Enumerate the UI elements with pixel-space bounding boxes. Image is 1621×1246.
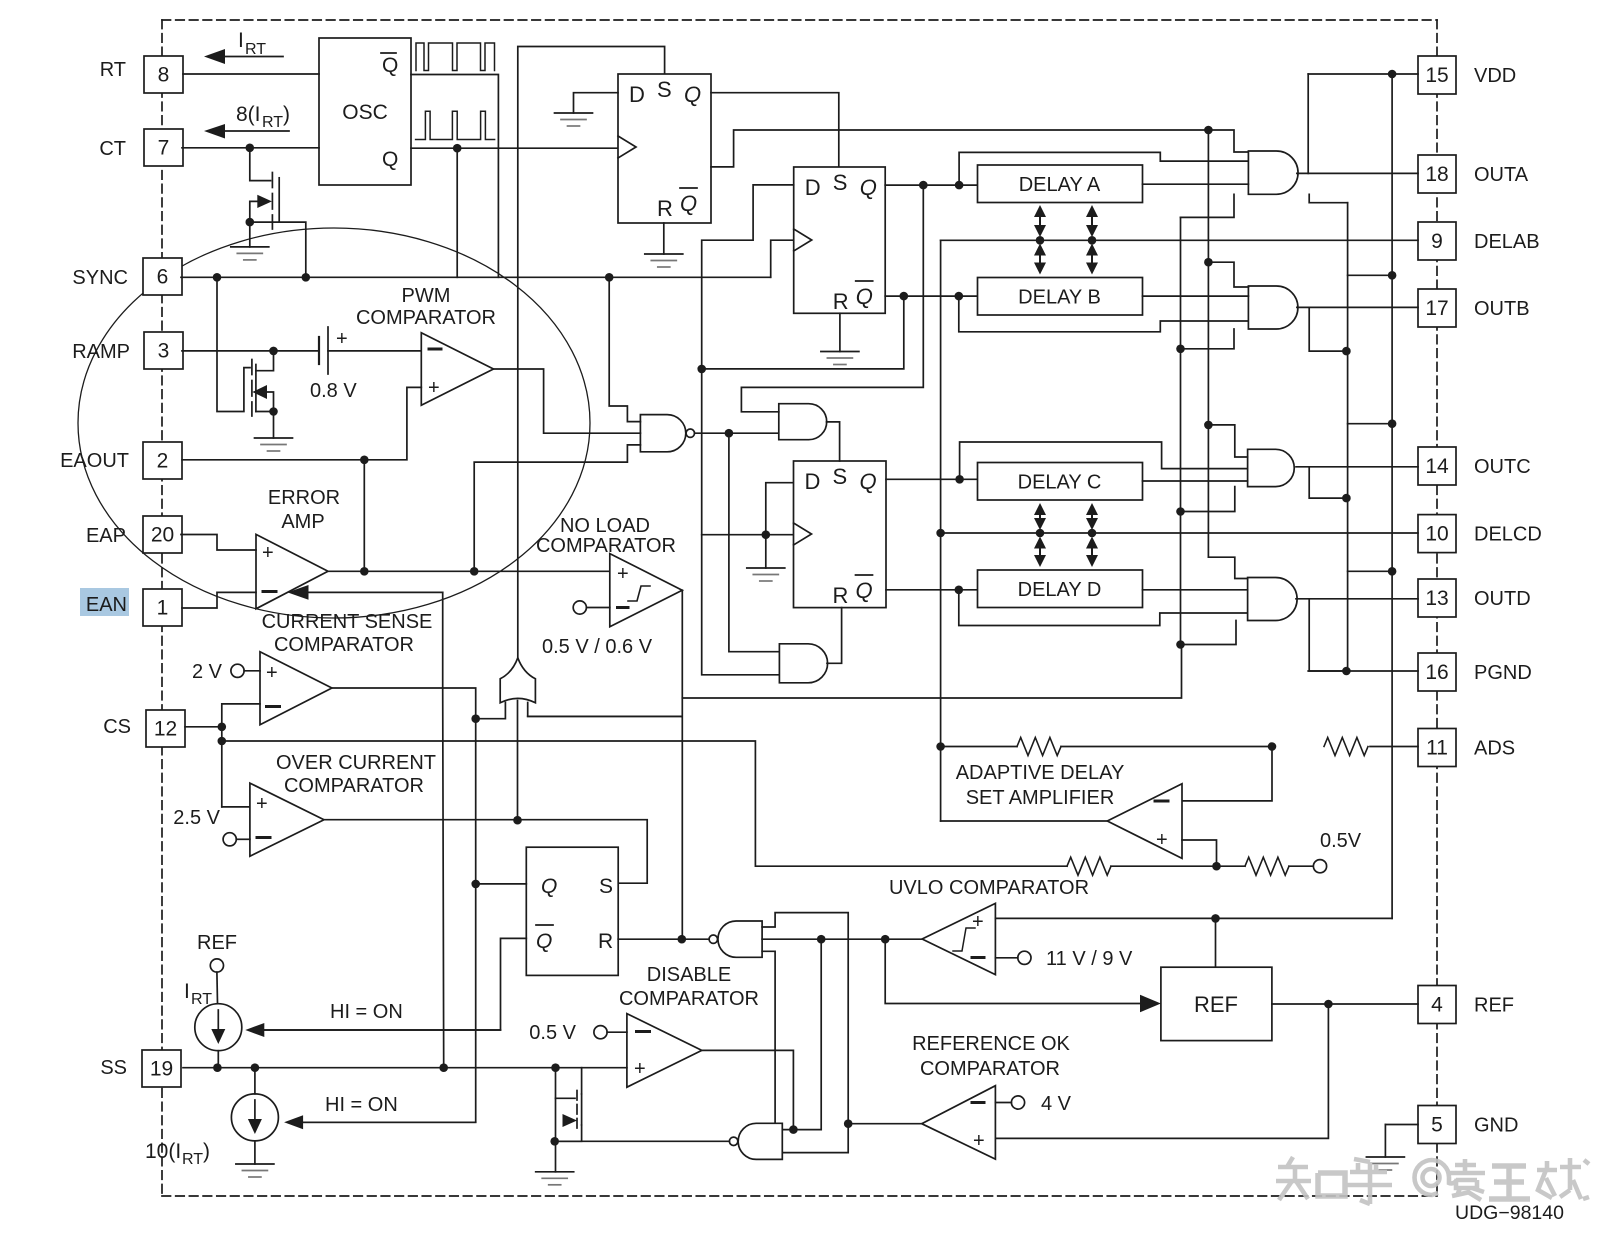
wire OUTD row to pin 13 — [1296, 598, 1418, 600]
battery 0.8V — [310, 327, 357, 402]
svg-text:REF: REF — [1194, 992, 1238, 1017]
svg-text:R: R — [657, 196, 673, 221]
svg-text:+: + — [1156, 829, 1168, 851]
svg-text:8: 8 — [158, 64, 170, 87]
ground FF2 R — [821, 351, 859, 353]
wire OUTC drop to bus1347 — [1309, 467, 1346, 498]
wire FF3 Qbar to DELAY D — [886, 589, 978, 591]
junction Qbar1 bus1208 — [1204, 126, 1213, 135]
svg-text:CS: CS — [103, 716, 131, 738]
svg-text:OUTD: OUTD — [1474, 588, 1531, 610]
svg-text:DELAY C: DELAY C — [1018, 472, 1102, 494]
junction Qbar2 riser — [900, 292, 909, 301]
and gate C — [1248, 449, 1295, 486]
ground FF1 D — [555, 112, 593, 114]
svg-text:REF: REF — [197, 932, 237, 954]
junction R row riser to NAND2 — [817, 935, 826, 944]
flip-flop FF1 — [618, 74, 711, 223]
wire UVLO out down to REF arrow — [885, 939, 1142, 1003]
svg-text:ADS: ADS — [1474, 738, 1515, 760]
bus 1181 vertical — [1180, 217, 1182, 644]
reference terminal 11V/9V — [995, 948, 1133, 970]
svg-text:14: 14 — [1425, 455, 1449, 478]
wire EAOUT pin to PWM + input — [182, 387, 421, 459]
wire FF2 D loop from bus701 — [702, 185, 794, 675]
svg-text:Q: Q — [680, 191, 697, 216]
reference terminal NO LOAD - input — [573, 601, 610, 614]
wire OUTC row to pin 14 — [1296, 466, 1418, 468]
annotation IRT arrow at RT — [204, 29, 283, 64]
wire FF2 Qbar output to DELAY B — [885, 295, 977, 297]
junction bus1347 B — [1342, 347, 1351, 356]
wire NOLOAD branch row 698 — [682, 645, 1181, 699]
svg-text:CT: CT — [99, 138, 126, 160]
junction REFOK out — [844, 1119, 853, 1128]
wire OSC Q output to FF1 clock — [411, 147, 618, 149]
svg-text:HI = ON: HI = ON — [325, 1094, 398, 1116]
wire OUTD drop to PGND row — [1309, 599, 1346, 671]
svg-text:3: 3 — [158, 340, 170, 363]
wire gate C bottom staircase from bus1181 — [1181, 487, 1235, 512]
junction clock-RAMP gate — [213, 273, 222, 282]
op-amp ADAPTIVE DELAY SET AMPLIFIER — [956, 762, 1182, 858]
svg-text:0.5V: 0.5V — [1320, 830, 1362, 852]
svg-text:RAMP: RAMP — [72, 341, 130, 363]
junction CT FET source — [246, 218, 255, 227]
junction clock-NAND riser — [605, 273, 614, 282]
svg-text:HI = ON: HI = ON — [330, 1001, 403, 1023]
svg-text:I: I — [184, 980, 190, 1003]
wire REF output to pin 4 — [1272, 1003, 1418, 1005]
reference terminal REF — [197, 932, 237, 1004]
junction Q to sync riser — [453, 144, 462, 153]
svg-text:EAP: EAP — [86, 525, 126, 547]
wire riser 821 to NAND2 top input — [782, 939, 821, 1129]
pin OUTC 14 — [1418, 447, 1456, 485]
current source 10IRT — [145, 1094, 278, 1168]
svg-text:+: + — [617, 563, 629, 585]
wire PGND row — [1308, 670, 1418, 672]
svg-text:DELAY B: DELAY B — [1018, 287, 1101, 309]
reference terminal 2.5V — [173, 807, 250, 846]
arrow REF enable input — [1140, 995, 1161, 1013]
svg-text:D: D — [629, 82, 645, 107]
wire link 1347-1392 at 275 — [1348, 274, 1393, 276]
svg-text:NO LOAD: NO LOAD — [560, 515, 650, 537]
wire SS line — [183, 1067, 627, 1069]
pin OUTA 18 — [1418, 155, 1456, 193]
wire NAND2 output to FET source node — [555, 1140, 730, 1142]
svg-text:D: D — [805, 175, 821, 200]
svg-text:SET AMPLIFIER: SET AMPLIFIER — [966, 787, 1115, 809]
junction RAMP FET source — [269, 407, 278, 416]
bus PGND 1347 — [1347, 203, 1349, 671]
wire ADS tap to amp - input — [1182, 747, 1272, 801]
wire OUTB row to pin 17 — [1297, 306, 1418, 308]
junction bus1181 D — [1176, 640, 1185, 649]
OSC output waveform Q (bottom) — [416, 111, 495, 139]
current source IRT — [184, 980, 242, 1051]
svg-text:Q: Q — [382, 148, 398, 171]
wire disable comparator output — [702, 1050, 794, 1129]
svg-text:2 V: 2 V — [192, 661, 223, 683]
wire amp output to delay-set bus — [941, 820, 1108, 822]
wire Q3 feed to gate C — [960, 442, 1248, 479]
svg-text:): ) — [203, 1140, 210, 1163]
nand gate U-PWM (mid) — [640, 415, 694, 452]
svg-text:5: 5 — [1431, 1114, 1443, 1137]
junction Qbar3 — [955, 586, 964, 595]
wire RAMP pin to battery — [182, 350, 319, 352]
svg-text:OVER CURRENT: OVER CURRENT — [276, 752, 436, 774]
svg-text:12: 12 — [154, 718, 177, 741]
wire DELAY C output to gate C — [1143, 480, 1248, 482]
and gate S3 — [779, 404, 827, 440]
junction clock-CTFET — [302, 273, 311, 282]
and gate D — [1248, 578, 1298, 621]
bus Qbar1/Qbar3 vertical 1208 — [1207, 130, 1209, 557]
svg-text:REFERENCE OK: REFERENCE OK — [912, 1033, 1070, 1055]
junction bus1208 B — [1204, 258, 1213, 267]
junction OC output / OR riser — [513, 816, 522, 825]
op-amp OVER CURRENT COMPARATOR — [250, 752, 436, 856]
svg-text:9: 9 — [1431, 230, 1443, 253]
svg-text:): ) — [283, 103, 290, 126]
svg-text:S: S — [833, 170, 848, 195]
wire EAP pin to error amp + — [181, 535, 256, 551]
resistor R-cs1 — [1067, 857, 1111, 875]
svg-text:OSC: OSC — [342, 101, 388, 124]
wire RT pin to OSC — [183, 73, 319, 75]
junction bus1208 C — [1204, 421, 1213, 430]
junction REF output — [1324, 1000, 1333, 1009]
IC boundary dashed border — [162, 20, 1437, 1196]
svg-text:17: 17 — [1425, 297, 1448, 320]
junction Q3 — [955, 475, 964, 484]
oscillator OSC block — [319, 38, 411, 185]
flip-flop FF3 — [794, 461, 887, 608]
svg-text:EAOUT: EAOUT — [60, 450, 129, 472]
wire OR output riser to FF1 S input — [518, 47, 665, 658]
svg-text:+: + — [336, 328, 348, 350]
wire delay-set bus down to amp output — [940, 240, 942, 821]
pin DELAB 9 — [1418, 222, 1456, 260]
svg-text:+: + — [634, 1058, 646, 1080]
svg-text:13: 13 — [1425, 587, 1448, 610]
svg-text:COMPARATOR: COMPARATOR — [356, 307, 496, 329]
wire UVLO + input from VDD bus — [995, 917, 1392, 919]
arrows DELAY A-B adjust — [1034, 205, 1098, 275]
junction SS bus443 — [439, 1063, 448, 1072]
wire 10IRT to ground — [254, 1141, 256, 1164]
op-amp CURRENT SENSE COMPARATOR — [260, 611, 432, 725]
svg-text:11 V / 9 V: 11 V / 9 V — [1046, 948, 1133, 970]
wire CS node to OC + input — [222, 806, 250, 808]
svg-text:16: 16 — [1425, 661, 1448, 684]
wire clock riser to NAND top input — [609, 277, 640, 421]
svg-text:Q: Q — [541, 875, 557, 898]
junction CT gate tap — [246, 144, 255, 153]
resistor R-ads2 — [1324, 738, 1368, 756]
wire CT pin to OSC — [182, 147, 319, 149]
wire gate D bottom staircase from bus1181 — [1181, 621, 1237, 645]
svg-text:4: 4 — [1431, 994, 1443, 1017]
OSC output waveform Qbar (top) — [416, 43, 495, 71]
wire 10IRT top to SS — [254, 1068, 256, 1094]
svg-text:COMPARATOR: COMPARATOR — [274, 634, 414, 656]
wire gate D top staircase from bus1208 — [1208, 557, 1247, 578]
wire REFOK output row — [848, 1123, 922, 1125]
junction OR branch — [471, 714, 480, 723]
junction ADS bus — [936, 742, 945, 751]
junction ADS mid — [1268, 742, 1277, 751]
junction FET source — [550, 1137, 559, 1146]
wire NAND-R mid input from UVLO row — [762, 938, 885, 940]
wire FF3 D to ground — [766, 483, 794, 568]
wire amp + input tap — [1182, 840, 1217, 866]
ground soft-start FET — [536, 1171, 574, 1173]
wire SYNC clock line — [181, 276, 771, 278]
wire error amp node to NAND bottom input — [474, 445, 640, 571]
resistor R-ads1 — [1017, 738, 1061, 756]
junction SS 10irt — [251, 1063, 260, 1072]
svg-text:AMP: AMP — [281, 511, 324, 533]
and gate B — [1248, 286, 1298, 329]
junction SS irt — [213, 1063, 222, 1072]
wire CS pin to comparator - input — [185, 704, 260, 727]
svg-text:+: + — [973, 1130, 985, 1152]
wire link 1347-1392 at 424 — [1348, 423, 1393, 425]
wire OSC Qbar output to clock line — [411, 75, 498, 278]
or gate OR1 — [500, 658, 535, 703]
svg-text:PGND: PGND — [1474, 662, 1532, 684]
svg-text:RT: RT — [245, 41, 266, 58]
ground GND pin — [1366, 1156, 1404, 1158]
svg-text:UVLO COMPARATOR: UVLO COMPARATOR — [889, 877, 1089, 899]
svg-text:ERROR: ERROR — [268, 487, 340, 509]
svg-text:18: 18 — [1425, 163, 1448, 186]
svg-text:COMPARATOR: COMPARATOR — [536, 535, 676, 557]
svg-text:DELAY A: DELAY A — [1019, 174, 1101, 196]
junction delcd bus — [936, 529, 945, 538]
wire PWM comparator output to NAND mid input — [494, 369, 641, 433]
svg-text:GND: GND — [1474, 1115, 1518, 1137]
op-amp ERROR AMP — [256, 487, 340, 609]
arrow HI=ON 2 — [284, 1094, 476, 1129]
block DELAY D — [978, 570, 1143, 608]
junction disable output joins NAND2 top line — [789, 1125, 798, 1134]
wire REF output to REFOK + input — [995, 1004, 1328, 1138]
ground FF1 R — [645, 253, 683, 255]
svg-text:D: D — [805, 469, 821, 494]
wire NAND output to S3 AND gate — [695, 432, 779, 434]
pin DELCD 10 — [1418, 515, 1456, 553]
junction delab arrows — [1036, 236, 1045, 245]
wire S3 output to FF3 S — [827, 422, 840, 461]
watermark zhihu — [1276, 1157, 1589, 1204]
svg-text:CURRENT SENSE: CURRENT SENSE — [262, 611, 433, 633]
wire FF3 clock from bus701 — [702, 534, 794, 536]
wire clock to FF2 clock input — [771, 240, 794, 277]
pin GND 5 — [1418, 1106, 1456, 1144]
transistor RAMP discharge FET — [217, 277, 274, 438]
block DELAY A — [978, 165, 1143, 203]
junction R row / NOLOAD bus — [678, 935, 687, 944]
svg-text:0.5 V: 0.5 V — [529, 1022, 576, 1044]
wire NOLOAD branch row 716 — [528, 715, 682, 717]
nand gate U-disable (mirrored) — [729, 1123, 782, 1159]
pin ADS 11 — [1418, 729, 1456, 767]
and gate R3 — [779, 644, 827, 683]
pin EAN 1 (highlighted) — [80, 588, 129, 616]
wire feedback bus down to SS line — [443, 688, 444, 1068]
wire NO LOAD output riser — [681, 590, 683, 939]
svg-text:I: I — [238, 29, 244, 52]
svg-text:ADAPTIVE DELAY: ADAPTIVE DELAY — [956, 762, 1125, 784]
resistor R-cs2 — [1245, 857, 1289, 875]
svg-text:7: 7 — [158, 137, 170, 160]
svg-text:11: 11 — [1426, 737, 1448, 760]
op-amp UVLO COMPARATOR — [889, 877, 1089, 975]
wire FF1 D to ground — [574, 93, 619, 113]
wire latch R row to NAND bubble — [618, 938, 709, 940]
wire ADS line — [941, 746, 1017, 748]
wire Qbar2 feed to gate B — [959, 296, 1249, 332]
junction Q2 feed — [955, 181, 964, 190]
wire CS node down — [221, 727, 223, 807]
svg-text:+: + — [428, 377, 440, 399]
junction bus701 — [697, 365, 706, 374]
junction RAMP FET drain — [269, 347, 278, 356]
wire IRT to SS — [217, 1051, 219, 1068]
junction error amp out / NAND riser — [470, 567, 479, 576]
junction Qbar2 gateB feed — [955, 292, 964, 301]
svg-text:DELAB: DELAB — [1474, 231, 1540, 253]
svg-text:OUTC: OUTC — [1474, 456, 1531, 478]
wire NAND-R bottom input down to NAND2 — [762, 951, 775, 1125]
junction VDD bus — [1388, 70, 1397, 79]
svg-text:R: R — [833, 289, 849, 314]
pin CS 12 — [146, 710, 185, 747]
wire DELAY B output to gate B — [1143, 295, 1249, 297]
svg-text:RT: RT — [100, 59, 126, 81]
svg-text:S: S — [833, 464, 848, 489]
ground 10IRT — [236, 1163, 274, 1165]
junction bus1181 C — [1176, 507, 1185, 516]
wire Q riser to clock line — [456, 148, 458, 277]
pin REF 4 — [1418, 986, 1456, 1024]
svg-text:Q: Q — [684, 82, 701, 107]
and gate A — [1248, 151, 1298, 194]
transistor soft-start discharge FET — [555, 1068, 582, 1172]
junction Q2 riser down — [919, 181, 928, 190]
arrow HI=ON 1 — [245, 1001, 500, 1037]
pin RAMP 3 — [144, 332, 183, 369]
svg-text:4 V: 4 V — [1041, 1093, 1072, 1115]
pin VDD 15 — [1418, 56, 1456, 94]
svg-text:10(I: 10(I — [145, 1140, 181, 1163]
svg-text:+: + — [262, 542, 274, 564]
wire gate C top staircase from bus1208 — [1208, 425, 1247, 457]
junction CS pin node 2 — [218, 737, 227, 746]
op-amp REFERENCE OK COMPARATOR — [912, 1033, 1070, 1159]
svg-text:Q: Q — [536, 930, 552, 953]
wire S3 top input from Q2 riser — [741, 185, 923, 412]
pin EAP 20 — [143, 516, 182, 553]
reference terminal 0.5V — [1289, 830, 1362, 873]
svg-text:COMPARATOR: COMPARATOR — [920, 1058, 1060, 1080]
svg-text:SS: SS — [100, 1057, 127, 1079]
svg-text:0.5 V / 0.6 V: 0.5 V / 0.6 V — [542, 636, 653, 658]
ground RAMP FET — [255, 437, 293, 439]
svg-text:+: + — [972, 911, 984, 933]
wire bus1347 top corner — [1309, 194, 1347, 202]
svg-text:6: 6 — [157, 266, 169, 289]
svg-text:COMPARATOR: COMPARATOR — [619, 988, 759, 1010]
wire feedback riser to current sense output — [442, 592, 444, 688]
wire Q2 feed to gate A — [959, 152, 1248, 185]
svg-text:SYNC: SYNC — [72, 267, 128, 289]
junction CS pin node 1 — [218, 723, 227, 732]
wire CS comparator output to OR left input — [332, 688, 506, 719]
bus VDD 1392 — [1391, 74, 1393, 918]
latch Q/S flip-flop — [526, 847, 618, 975]
wire R-node branch to OR right input — [681, 715, 683, 717]
wire FF2 R to ground — [839, 313, 841, 351]
pin OUTB 17 — [1418, 289, 1456, 327]
block REF regulator — [1161, 967, 1272, 1040]
wire GND pin with ground — [1385, 1125, 1418, 1158]
svg-text:20: 20 — [151, 524, 174, 547]
junction latch Q / bus475 — [471, 880, 480, 889]
wire DELAY A output to gate A — [1143, 183, 1249, 185]
junction error amp out / EAOUT — [360, 567, 369, 576]
block DELAY C — [978, 463, 1143, 501]
svg-text:EAN: EAN — [86, 594, 127, 616]
svg-text:OUTB: OUTB — [1474, 298, 1530, 320]
svg-text:19: 19 — [150, 1058, 173, 1081]
pin SYNC 6 — [143, 258, 182, 295]
wire OC output to latch S — [324, 820, 647, 884]
junction PGND gateD — [1342, 667, 1351, 676]
junction EAOUT riser — [360, 456, 369, 465]
wire Qbar2 riser to bus701 — [702, 296, 904, 369]
wire R-node riser to OR right input — [528, 703, 682, 717]
svg-text:R: R — [598, 930, 613, 953]
junction SS fet — [551, 1063, 560, 1072]
svg-text:DELCD: DELCD — [1474, 524, 1542, 546]
svg-text:+: + — [256, 793, 268, 815]
wire DELAB line to pin 9 — [941, 239, 1418, 241]
wire OC node riser to OR center input — [517, 701, 519, 821]
svg-text:0.8 V: 0.8 V — [310, 380, 357, 402]
ground FF3 D — [747, 567, 785, 569]
wire feedback arrow into error amp - input — [288, 585, 443, 600]
reference terminal 4V — [995, 1093, 1071, 1115]
svg-text:COMPARATOR: COMPARATOR — [284, 775, 424, 797]
svg-text:Q: Q — [860, 175, 877, 200]
svg-text:Q: Q — [856, 284, 873, 309]
svg-text:1: 1 — [157, 597, 169, 620]
wire bus475 down to HI=ON arrow 2 — [304, 719, 476, 1123]
reference terminal 0.5V disable — [529, 1022, 627, 1044]
op-amp NO LOAD COMPARATOR — [536, 515, 682, 658]
block DELAY B — [978, 278, 1143, 316]
svg-text:UDG−98140: UDG−98140 — [1455, 1202, 1564, 1224]
wire NAND-R top input from GND bus — [762, 913, 848, 1124]
ground CT FET — [231, 246, 269, 248]
wire R3 output to FF3 R — [827, 608, 842, 664]
